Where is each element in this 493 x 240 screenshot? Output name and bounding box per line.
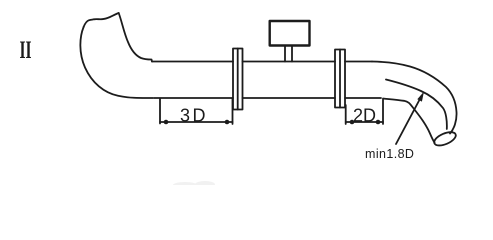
- dimension 3D line: [160, 121, 233, 123]
- elbow top opening edge: [84, 13, 119, 27]
- leader line for bend radius: [396, 96, 422, 144]
- transmitter head box: [270, 21, 310, 46]
- pipe end opening cap: [432, 129, 457, 148]
- dimension 3D dots: [164, 120, 169, 125]
- svg-text:2D: 2D: [353, 106, 376, 126]
- dimension 2D dots: [350, 120, 355, 125]
- flange F2 (downstream): [335, 50, 345, 108]
- straight pipe run top line: [152, 61, 372, 63]
- svg-text:3D: 3D: [180, 106, 208, 126]
- leader arrowhead: [417, 92, 424, 102]
- flange F1 (upstream): [233, 49, 243, 110]
- downstream bend inner curve: [383, 99, 435, 143]
- elbow inner curve: [119, 13, 152, 62]
- dimension 2D extension lines: [346, 100, 383, 125]
- transmitter stem: [285, 46, 292, 62]
- dimension 2D line: [346, 121, 383, 123]
- elbow outer curve: [80, 27, 153, 98]
- svg-text:min1.8D: min1.8D: [365, 147, 414, 161]
- upstream elbow (pipe bend at inlet): [80, 13, 153, 98]
- downstream bend inner silhouette line: [386, 80, 447, 130]
- faint cropped caption remnant at bottom edge: [173, 181, 215, 188]
- svg-text:II: II: [20, 36, 32, 64]
- straight pipe run bottom line: [154, 97, 381, 99]
- dimension 3D extension lines: [160, 99, 233, 125]
- downstream bend outer curve: [372, 62, 457, 134]
